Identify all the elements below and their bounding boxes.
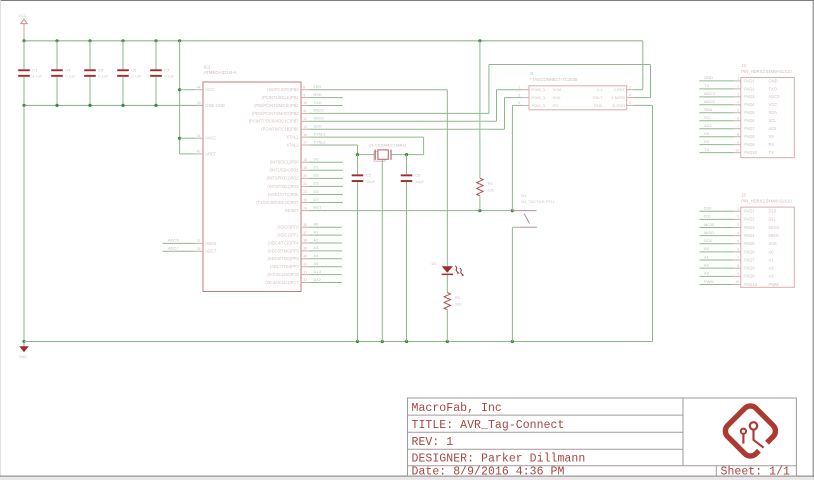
wire to IC1 AREF pin [180,153,195,155]
svg-text:(INT2/RXD1)PD2: (INT2/RXD1)PD2 [267,176,299,181]
svg-text:0.1uF: 0.1uF [98,74,109,79]
svg-text:MOSI: MOSI [314,116,324,121]
svg-text:(INT0/SCL)PD0: (INT0/SCL)PD0 [270,160,299,165]
svg-text:ADC0: ADC0 [704,99,715,104]
pin 2 (PAD2) of J3 [734,218,741,220]
capacitor C4 [51,69,63,77]
pin 5 (PGM_5) of J1 [522,104,530,106]
svg-text:1: 1 [737,77,739,81]
resistor R1 [477,178,483,196]
pin 11 ((PDO/PCINT3/MISO)PB3) of IC1 [301,112,310,114]
svg-text:9: 9 [303,93,305,97]
wire C3 to GND rail [406,182,408,342]
wire net ADC0 to J2 pin 4 [700,104,734,106]
svg-text:18pF: 18pF [415,179,425,184]
junction GND rail left end [22,340,25,343]
svg-text:(OC4A/CLK1)PC7: (OC4A/CLK1)PC7 [265,280,299,285]
svg-text:36: 36 [303,223,307,227]
pin 27 (ADC6) of IC1 left side [195,242,204,244]
svg-text:S1: S1 [521,193,527,198]
junction on VCC rail x=123 [121,39,124,42]
crystal Q1 [374,150,391,162]
svg-text:PAD6: PAD6 [744,118,755,123]
wire VCC rail to C5 [89,41,91,70]
wire net SCL to J2 pin 6 [700,120,734,122]
pin 10 ((PDI/PCINT2/MOSI)PB2) of IC1 [301,105,310,107]
junction on GND rail x=357.5 [356,340,359,343]
svg-text:PGM_5: PGM_5 [532,103,546,108]
svg-text:R2: R2 [455,295,461,300]
pin 8 (PAD8) of J2 [734,136,741,138]
svg-text:A2: A2 [704,262,710,267]
svg-text:SDA: SDA [704,107,713,112]
pin 32 ((OC4A/CLK1)PC7) of IC1 [301,282,310,284]
svg-text:39: 39 [303,247,307,251]
wire net A5 stub [310,266,342,268]
svg-text:GND: GND [19,355,28,359]
wire C1 to GND rail [23,77,25,106]
svg-text:10k: 10k [488,187,494,192]
svg-text:C5: C5 [98,67,104,72]
connector J1 box [529,86,627,110]
svg-text:16: 16 [303,133,307,137]
wire VCC rail to C1 [23,41,25,70]
wire net MOSI to J3 pin 3 [700,226,734,228]
svg-text:1-1: 1-1 [597,87,604,92]
svg-text:PAD2: PAD2 [744,217,755,222]
svg-text:PAD1: PAD1 [744,209,755,214]
wire net MISO drop to J1 pin 4 [650,65,652,98]
svg-text:PAD8: PAD8 [744,266,755,271]
pin 36 ((ADC0)PF0) of IC1 [301,226,310,228]
svg-text:24: 24 [303,206,307,210]
wire net MISO horizontal [310,112,489,114]
svg-text:10: 10 [735,148,739,152]
svg-text:DESIGNER: Parker Dillmann: DESIGNER: Parker Dillmann [412,453,586,466]
pin 39 ((ADC5/TMS)PF5) of IC1 [301,250,310,252]
svg-text:7: 7 [737,256,739,260]
wire J1 pin6 to GND [634,104,653,106]
svg-text:(ICP3/CLK0)PC6: (ICP3/CLK0)PC6 [267,272,299,277]
svg-text:4: 4 [737,231,739,235]
svg-text:A2: A2 [769,266,775,271]
wire net RESET to J1 pin 5 [512,104,521,106]
page frame top edge [0,0,814,2]
svg-text:11: 11 [303,109,307,113]
svg-text:VCM: VCM [553,87,562,92]
pin 43 (GND GND) of IC1 left side [195,104,204,106]
svg-text:4: 4 [737,101,739,105]
svg-text:Date: 8/9/2016 4:36 PM: Date: 8/9/2016 4:36 PM [412,466,565,479]
wire net MOSI to J1 pin 1 [497,89,522,91]
svg-text:J2: J2 [741,63,746,68]
svg-text:MacroFab, Inc: MacroFab, Inc [412,402,502,415]
wire net RXD stub [310,97,343,99]
svg-text:SS: SS [769,134,775,139]
svg-text:ADC3: ADC3 [769,94,781,99]
svg-text:A4: A4 [314,253,320,258]
wire net D11 to J3 pin 2 [700,218,734,220]
svg-text:0.1uF: 0.1uF [131,74,142,79]
pin 9 (PAD9) of J2 [734,144,741,146]
junction VCC at IC1 VCC pin [178,88,181,91]
capacitor C2 [352,174,364,182]
svg-text:J3: J3 [741,193,746,198]
svg-text:PAD6: PAD6 [744,249,755,254]
svg-text:VCC: VCC [19,14,27,18]
wire net A0 to J3 pin 6 [700,251,734,253]
pin 2 (PAD2) of J2 [734,88,741,90]
svg-text:SCL: SCL [704,115,713,120]
pin 3 (PAD3) of J2 [734,96,741,98]
pin 34 (AVCC) of IC1 left side [195,137,204,139]
wire Q1 case pin to GND [381,160,383,342]
wire net A1 to J3 pin 7 [700,259,734,261]
wire net XTAL1 to Q1 [407,154,424,156]
wire net AD2 to J2 pin 7 [700,128,734,130]
svg-text:8: 8 [737,132,739,136]
svg-text:MOSI: MOSI [704,222,714,227]
svg-text:PG: PG [553,103,559,108]
svg-text:4-MOSI: 4-MOSI [611,95,625,100]
svg-text:1: 1 [518,85,520,89]
svg-text:REV: 1: REV: 1 [412,436,454,449]
svg-text:(ADC4/TCK)PF4: (ADC4/TCK)PF4 [268,240,299,245]
pin 22 ((XCK1/CTS)PD5) of IC1 [301,193,310,195]
pin 5 (PAD5) of J3 [734,243,741,245]
junction on cap GND rail x=57 [55,104,58,107]
pin 1 (PAD1) of J3 [734,210,741,212]
wire net SCK horizontal [310,128,505,130]
pin 6 (PAD6) of J3 [734,251,741,253]
junction on cap GND rail x=24 [22,104,25,107]
svg-text:ADC6: ADC6 [168,238,179,243]
svg-text:SCK: SCK [704,238,713,243]
svg-text:(PDI/PCINT2/MOSI)PB2: (PDI/PCINT2/MOSI)PB2 [254,103,299,108]
svg-text:22: 22 [303,190,307,194]
wire net LED vertical to D1 [446,90,448,267]
pin 38 ((ADC4/TCK)PF4) of IC1 [301,242,310,244]
page frame right edge [812,0,814,480]
svg-text:A3: A3 [314,245,320,250]
wire GND net left vertical [23,105,25,341]
pin 41 ((ADC7/TDI)PF7) of IC1 [301,266,310,268]
svg-text:1: 1 [737,207,739,211]
pin 7 (PAD7) of J3 [734,259,741,261]
junction on GND rail x=512.4 [511,340,514,343]
pin 9 (PAD9) of J3 [734,275,741,277]
pin 20 ((INT2/RXD1)PD2) of IC1 [301,177,310,179]
svg-text:4: 4 [629,93,631,97]
wire net XTAL1 vertical [423,137,425,155]
wire net A3 to J3 pin 9 [700,275,734,277]
svg-text:(PDO/PCINT3/MISO)PB3: (PDO/PCINT3/MISO)PB3 [252,111,299,116]
svg-text:(INT1/SDA)PD1: (INT1/SDA)PD1 [269,168,299,173]
wire net RESET vertical from J1 pin 5 [511,105,513,210]
svg-text:D11: D11 [704,214,712,219]
svg-text:A1: A1 [704,254,710,259]
svg-text:A0: A0 [704,246,710,251]
svg-text:34: 34 [197,134,201,138]
svg-text:(ADC6/TDO)PF6: (ADC6/TDO)PF6 [268,256,300,261]
wire Q1 right to XTAL1 [391,154,407,156]
wire net ADC3 to J2 pin 3 [700,96,734,98]
svg-text:20: 20 [303,174,307,178]
svg-text:D10: D10 [704,206,712,211]
svg-text:(ADC7/TDI)PF7: (ADC7/TDI)PF7 [270,264,300,269]
wire net SCK vertical [504,98,506,130]
wire net SCK to J3 pin 5 [700,243,734,245]
capacitor C6 [117,69,129,77]
capacitor C1 [18,69,30,77]
svg-text:PIN_HDRX2.54MM-S1X10: PIN_HDRX2.54MM-S1X10 [741,69,792,74]
svg-text:RX: RX [769,142,775,147]
junction on VCC rail x=24 [22,39,25,42]
svg-text:PAD9: PAD9 [744,274,755,279]
junction on GND rail x=447.3 [446,340,449,343]
wire XTAL2 to Q1 left [358,154,376,156]
wire S1 to GND rail [511,227,513,341]
svg-text:3: 3 [737,93,739,97]
junction on VCC rail x=90 [88,39,91,42]
page frame left edge [0,0,1,480]
svg-text:XTAL2: XTAL2 [314,139,327,144]
svg-text:7: 7 [737,124,739,128]
pin 10 (PAD10) of J3 [734,283,741,285]
svg-text:XTAL1: XTAL1 [286,135,299,140]
svg-text:A0: A0 [769,249,775,254]
junction on VCC rail x=156 [154,39,157,42]
junction on GND rail x=382.3 [381,340,384,343]
wire net TX to J2 pin 2 [700,88,734,90]
svg-text:18: 18 [303,158,307,162]
svg-text:(XCK1/CTS)PD5: (XCK1/CTS)PD5 [268,192,299,197]
svg-text:D12: D12 [314,277,322,282]
wire net A1 stub [310,234,342,236]
svg-text:8: 8 [303,85,305,89]
wire VCC feed down to IC1 left pins [179,41,181,154]
svg-text:5: 5 [737,239,739,243]
LED D1 [442,266,465,276]
pin 8 ((SS/PCINT0)PB0) of IC1 [301,89,310,91]
svg-text:AREF: AREF [205,151,216,156]
svg-text:8: 8 [737,264,739,268]
junction on cap GND rail x=156 [154,104,157,107]
capacitor C3 [401,174,413,182]
svg-text:(INT3/TXD1)PD3: (INT3/TXD1)PD3 [267,184,299,189]
wire net MOSI horizontal [310,120,497,122]
junction RESET at S1/J1 [511,209,514,212]
svg-text:C6: C6 [131,67,137,72]
svg-text:VCC: VCC [205,87,214,92]
wire net PWM to J3 pin 10 [700,283,734,285]
wire VCC rail to C4 [56,41,58,70]
pin 1 (PAD1) of J2 [734,80,741,82]
svg-text:MISO: MISO [704,230,714,235]
svg-text:SCK: SCK [769,241,778,246]
svg-text:A0: A0 [314,222,320,227]
svg-text:A3: A3 [769,274,775,279]
junction RESET at R1 [478,209,481,212]
pin 21 ((INT3/TXD1)PD3) of IC1 [301,185,310,187]
svg-text:5: 5 [737,108,739,112]
pin 17 (XTAL2) of IC1 [301,144,310,146]
svg-text:PAD10: PAD10 [744,282,757,287]
svg-text:12: 12 [303,117,307,121]
svg-text:J1: J1 [530,71,535,76]
svg-text:B3_TACTILE-PTH: B3_TACTILE-PTH [521,199,554,204]
svg-text:18pF: 18pF [366,179,376,184]
svg-text:9: 9 [737,272,739,276]
svg-text:SDA: SDA [769,110,778,115]
svg-text:6: 6 [737,248,739,252]
svg-text:44: 44 [197,85,201,89]
svg-text:PAD9: PAD9 [744,142,755,147]
ground symbol GND [19,346,28,352]
svg-text:TX: TX [769,150,775,155]
svg-text:38: 38 [303,239,307,243]
wire net MISO to J3 pin 4 [700,235,734,237]
wire net A2 stub [310,242,342,244]
wire net MISO into J1 pin 4 [634,97,651,99]
svg-text:PIN_HDRX2.54MM-S1X10: PIN_HDRX2.54MM-S1X10 [741,199,792,204]
svg-text:(PCINT1/SCLK)PB1: (PCINT1/SCLK)PB1 [262,95,300,100]
pin 28 (ADC7) of IC1 left side [195,250,204,252]
svg-text:AD2: AD2 [769,126,778,131]
svg-text:ADC3: ADC3 [704,91,715,96]
pin 10 (PAD10) of J2 [734,152,741,154]
pin 2 (2-RST) of J1 right [627,89,634,91]
svg-text:0.1uF: 0.1uF [65,74,76,79]
wire R2 to GND rail [446,310,448,342]
svg-text:DB-T: DB-T [593,95,603,100]
wire stub to GND symbol [23,342,25,347]
svg-text:D2: D2 [314,173,320,178]
svg-text:SCL: SCL [769,118,778,123]
svg-text:GND GND: GND GND [205,103,224,108]
junction on GND rail x=406.5 [405,340,408,343]
wire XTAL2 to C2 [357,155,359,175]
svg-text:10: 10 [735,280,739,284]
svg-text:VCC: VCC [769,102,778,107]
wire C5 to GND rail [89,77,91,106]
wire net MISO vertical up [488,65,490,114]
pin 6 (6-GND) of J1 right [627,104,634,106]
title block frame [408,398,797,476]
wire net RESET horizontal [310,210,514,212]
pin 25 ((T1/OC4D/ADC10)PD7) of IC1 [301,202,310,204]
svg-text:R1: R1 [488,181,494,186]
svg-text:D1: D1 [432,261,438,266]
wire net D12 stub [310,282,342,284]
pin 9 ((PCINT1/SCLK)PB1) of IC1 [301,97,310,99]
wire net D1 stub [310,169,343,171]
wire net GND to J2 pin 1 [700,80,734,82]
pin 3 (PGM_3) of J1 [522,97,530,99]
pin 31 ((ICP3/CLK0)PC6) of IC1 [301,274,310,276]
svg-text:PAD2: PAD2 [744,86,755,91]
svg-text:4.7uF: 4.7uF [32,74,43,79]
junction VCC at IC1 AVCC pin [178,137,181,140]
svg-text:Q1 CERAMIC16MHZ: Q1 CERAMIC16MHZ [369,142,408,147]
svg-text:A2: A2 [314,237,320,242]
svg-text:GND: GND [769,78,778,83]
MacroFab logo [722,403,779,460]
svg-text:ADC7: ADC7 [205,249,217,254]
svg-text:42: 42 [197,150,201,154]
wire net A4 stub [310,258,342,260]
svg-text:(ADC1)PF1: (ADC1)PF1 [277,233,299,238]
svg-text:ATMEGA32U4-A: ATMEGA32U4-A [204,70,237,75]
svg-text:D7: D7 [314,197,320,202]
svg-text:PWM: PWM [769,282,780,287]
pin 6 (PAD6) of J2 [734,120,741,122]
svg-text:21: 21 [303,182,307,186]
wire VCC top rail [24,40,643,42]
svg-text:TXO: TXO [769,86,777,91]
wire net MISO top horizontal [489,64,651,66]
svg-text:(ADC5/TMS)PF5: (ADC5/TMS)PF5 [268,248,300,253]
page frame bottom edge [0,475,814,477]
svg-text:SCK: SCK [314,124,323,129]
svg-text:IC1: IC1 [204,65,211,70]
svg-text:D13: D13 [314,269,322,274]
wire net SS to J2 pin 8 [700,136,734,138]
svg-text:D5: D5 [314,189,320,194]
svg-text:5: 5 [518,101,520,105]
pin 5 (PAD5) of J2 [734,112,741,114]
capacitor C7 [150,69,162,77]
wire net SCK to J1 pin 3 [505,97,522,99]
junction XTAL2 node [356,153,359,156]
wire net MOSI vertical [496,90,498,122]
svg-text:PAD8: PAD8 [744,134,755,139]
pin 8 (PAD8) of J3 [734,267,741,269]
pin 40 ((ADC6/TDO)PF6) of IC1 [301,258,310,260]
svg-text:PGM_3: PGM_3 [532,95,546,100]
wire capacitor GND rail to IC1 GND pin [24,104,203,106]
junction on cap GND rail x=123 [121,104,124,107]
svg-text:LED: LED [314,84,322,89]
pin 24 (RESET) of IC1 [301,210,310,212]
wire net A3 stub [310,250,342,252]
svg-text:330: 330 [455,301,462,306]
svg-text:D3: D3 [314,181,320,186]
wire net RX to J2 pin 9 [700,144,734,146]
wire C7 to GND rail [155,77,157,106]
svg-text:(SS/PCINT0)PB0: (SS/PCINT0)PB0 [267,87,299,92]
wire VCC to R1 top [479,41,481,178]
wire VCC rail drop to J1 pin 2 [642,41,644,90]
svg-text:3: 3 [518,93,520,97]
wire VCC rail to C6 [122,41,124,70]
pin 7 (PAD7) of J2 [734,128,741,130]
svg-text:D1: D1 [314,165,320,170]
svg-text:PAD4: PAD4 [744,102,755,107]
resistor R2 [444,293,450,310]
svg-text:PGM_1: PGM_1 [532,87,546,92]
svg-text:A3: A3 [704,271,710,276]
wire net ADC6 [163,242,195,244]
svg-text:PAD5: PAD5 [744,110,755,115]
pin 16 (XTAL1) of IC1 [301,136,310,138]
svg-text:PAD5: PAD5 [744,241,755,246]
svg-text:A1: A1 [769,257,775,262]
svg-text:A1: A1 [314,229,320,234]
wire to IC1 AVCC pin [180,137,195,139]
svg-text:C7: C7 [164,67,170,72]
svg-text:RESET: RESET [285,208,299,213]
